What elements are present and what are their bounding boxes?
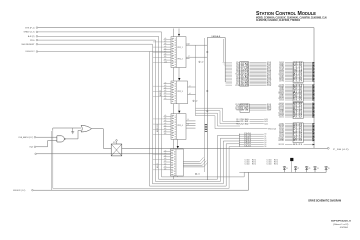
svg-text:R2 51: R2 51 [274, 160, 278, 162]
svg-text:a1b: a1b [164, 150, 166, 152]
svg-text:a3b: a3b [164, 43, 166, 45]
svg-text:D6: D6 [265, 146, 267, 148]
svg-text:a4b: a4b [164, 158, 166, 160]
svg-text:DATA A-B: DATA A-B [212, 35, 221, 38]
svg-text:B2-24: B2-24 [293, 140, 302, 142]
svg-text:C1 104: C1 104 [267, 160, 272, 162]
svg-text:4/1/2004: 4/1/2004 [340, 227, 349, 229]
svg-text:a1b: a1b [164, 38, 166, 40]
svg-text:a6b: a6b [164, 128, 166, 130]
svg-text:PR2_1: PR2_1 [178, 47, 183, 49]
svg-text:ASSR 5123: ASSR 5123 [156, 124, 159, 132]
svg-text:CLN5070B, CLN1001C, CLN74520,: CLN5070B, CLN1001C, CLN74520, TTN45004 [256, 19, 301, 22]
svg-text:C1-11: C1-11 [244, 135, 251, 137]
svg-text:a5b: a5b [164, 48, 166, 50]
svg-text:a6b: a6b [164, 51, 166, 53]
svg-text:a8b: a8b [164, 56, 166, 58]
svg-text:PR2_2: PR2_2 [178, 58, 183, 60]
svg-text:C1 104: C1 104 [245, 160, 250, 162]
svg-text:D2: D2 [265, 138, 267, 140]
svg-text:C2A_MACH (2-7): C2A_MACH (2-7) [18, 136, 33, 139]
svg-text:D1: D1 [265, 136, 267, 138]
svg-text:D5: D5 [265, 144, 267, 146]
svg-text:C1 104: C1 104 [245, 161, 250, 163]
svg-text:66PS/P65220-O: 66PS/P65220-O [331, 221, 351, 223]
svg-text:A-B (2): A-B (2) [28, 35, 35, 38]
svg-text:ASB 512: ASB 512 [159, 90, 162, 96]
svg-text:R1-21: R1-21 [293, 144, 302, 146]
svg-text:a7b: a7b [164, 54, 166, 56]
svg-text:B-22: B-22 [265, 123, 268, 125]
svg-text:PR2_3: PR2_3 [178, 91, 183, 93]
svg-text:Eph: Eph [30, 147, 33, 149]
svg-text:K1: K1 [113, 142, 115, 144]
svg-text:PR2_4: PR2_4 [178, 125, 183, 127]
svg-text:P_SH (4-2): P_SH (4-2) [333, 149, 349, 151]
svg-text:a8b: a8b [164, 133, 166, 135]
svg-text:R2 51: R2 51 [252, 160, 256, 162]
svg-text:a7b: a7b [164, 98, 166, 100]
svg-text:2011 D2: 2011 D2 [278, 144, 284, 146]
svg-text:B-21: B-21 [265, 121, 268, 123]
svg-text:Z5: Z5 [328, 168, 330, 170]
svg-text:20 B0: 20 B0 [240, 119, 249, 121]
svg-text:Z1: Z1 [286, 168, 288, 170]
svg-text:a4b: a4b [164, 90, 166, 92]
svg-text:P4-2: P4-2 [236, 121, 239, 123]
svg-text:P2-04: P2-04 [267, 85, 271, 87]
svg-text:D4: D4 [265, 142, 267, 144]
svg-text:P2-9: P2-9 [236, 110, 239, 112]
svg-text:C3-13: C3-13 [244, 139, 251, 141]
svg-text:a2b: a2b [164, 85, 166, 87]
svg-text:Z2: Z2 [297, 168, 299, 170]
svg-text:D0: D0 [265, 134, 267, 136]
svg-text:R2 51: R2 51 [274, 161, 278, 163]
svg-text:a3b: a3b [164, 156, 166, 158]
svg-text:+12: +12 [197, 174, 200, 176]
svg-text:C5-15: C5-15 [244, 143, 251, 145]
svg-text:P4-3: P4-3 [236, 123, 239, 125]
svg-text:R2 51: R2 51 [274, 163, 278, 165]
svg-text:a5b: a5b [164, 93, 166, 95]
svg-text:a3b: a3b [164, 88, 166, 90]
svg-text:18 J1: 18 J1 [240, 110, 249, 112]
svg-text:D3: D3 [265, 140, 267, 142]
svg-text:B-20: B-20 [265, 119, 268, 121]
svg-text:C4-14: C4-14 [244, 141, 251, 143]
svg-text:a1b: a1b [164, 82, 166, 84]
svg-text:Z3: Z3 [309, 168, 311, 170]
svg-text:a7b: a7b [164, 131, 166, 133]
svg-text:C6-16: C6-16 [244, 145, 251, 147]
svg-text:a1b: a1b [164, 115, 166, 117]
svg-text:a5b: a5b [164, 161, 166, 163]
svg-text:ENG_B (2): ENG_B (2) [268, 128, 276, 130]
svg-text:a6b: a6b [164, 95, 166, 97]
svg-text:207 H2: 207 H2 [279, 81, 284, 83]
svg-text:Z4: Z4 [317, 168, 319, 170]
svg-text:BTS (P-1): BTS (P-1) [25, 27, 35, 29]
svg-text:a4b: a4b [164, 123, 166, 125]
svg-text:ASL 51: ASL 51 [156, 163, 159, 168]
svg-text:R2 51: R2 51 [252, 161, 256, 163]
svg-text:a2b: a2b [164, 118, 166, 120]
svg-text:a10b: a10b [164, 61, 167, 63]
svg-text:21 B1: 21 B1 [240, 121, 249, 123]
svg-text:ENGDR (1-2): ENGDR (1-2) [13, 190, 25, 192]
svg-text:a8b: a8b [164, 169, 166, 171]
svg-text:22 B2: 22 B2 [240, 123, 249, 125]
svg-text:a6b: a6b [164, 163, 166, 165]
svg-text:R2 51: R2 51 [252, 163, 256, 165]
svg-text:SHL/REDENT: SHL/REDENT [21, 44, 35, 46]
svg-text:a4b: a4b [164, 46, 166, 48]
svg-text:C0-10: C0-10 [244, 133, 251, 135]
svg-text:C1 104: C1 104 [245, 163, 250, 165]
svg-text:F2-12: F2-12 [293, 117, 302, 119]
svg-text:MODEL CCN5000A, CLB1010C, CLN5: MODEL CCN5000A, CLB1010C, CLN5000A1, CLN… [256, 17, 327, 20]
svg-text:202 C1: 202 C1 [279, 117, 284, 119]
svg-text:+12: +12 [201, 61, 204, 63]
svg-text:203 D2: 203 D2 [279, 100, 284, 102]
svg-text:C1 104: C1 104 [267, 161, 272, 163]
svg-text:a7b: a7b [164, 166, 166, 168]
svg-text:(Sheet 1 of 2): (Sheet 1 of 2) [333, 223, 348, 226]
svg-text:2014 G1: 2014 G1 [278, 140, 284, 142]
svg-text:a5b: a5b [164, 125, 166, 127]
svg-text:a3b: a3b [164, 120, 166, 122]
svg-text:STATION CONTROL MODULE: STATION CONTROL MODULE [256, 11, 316, 17]
svg-text:DIGH B 2: DIGH B 2 [26, 51, 36, 53]
svg-text:a9b: a9b [164, 59, 166, 61]
svg-text:P2-14: P2-14 [235, 85, 239, 87]
svg-text:DRIVE SCHEMATIC DIAGRAM: DRIVE SCHEMATIC DIAGRAM [308, 200, 341, 203]
svg-text:C2-12: C2-12 [244, 137, 251, 139]
svg-text:a2b: a2b [164, 41, 166, 43]
svg-text:PRG: PRG [30, 40, 35, 42]
svg-text:C1 104: C1 104 [267, 163, 272, 165]
svg-text:J1-08: J1-08 [267, 110, 271, 112]
svg-text:SHB/2 (2-7): SHB/2 (2-7) [24, 32, 35, 34]
svg-text:P4-1: P4-1 [236, 119, 239, 121]
svg-text:+12: +12 [195, 100, 198, 102]
